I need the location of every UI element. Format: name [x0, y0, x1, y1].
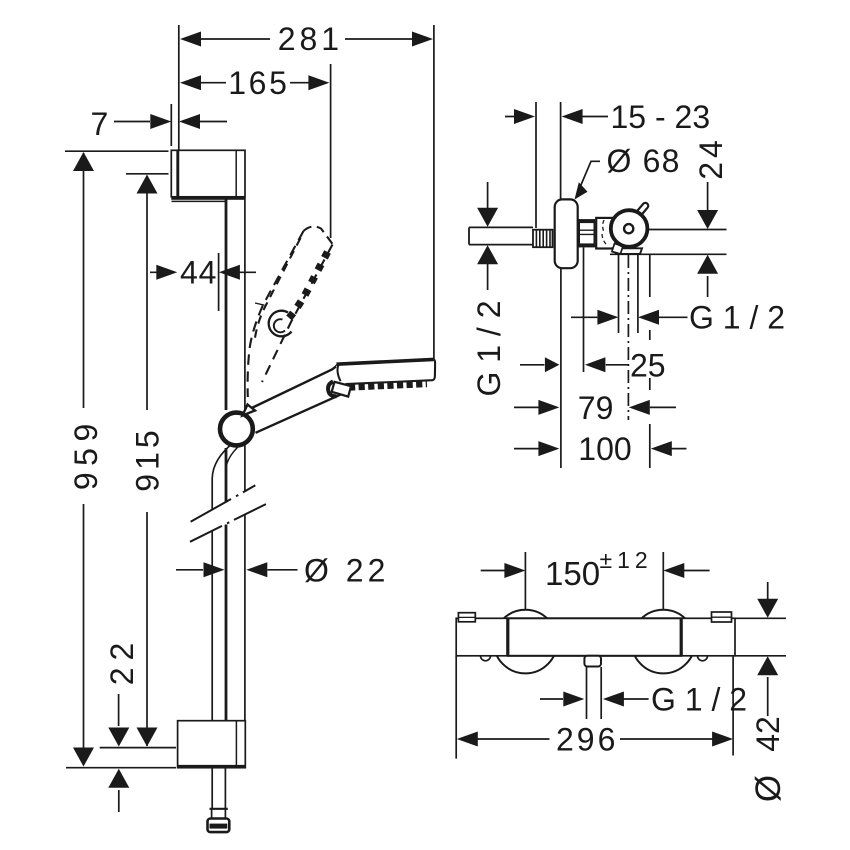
- node arrow 296 left: [457, 732, 478, 747]
- wire dim 165 line: [200, 82, 310, 84]
- node arrow 44 left: [156, 265, 177, 280]
- svg-text:296: 296: [556, 722, 618, 758]
- svg-text:959: 959: [68, 417, 104, 490]
- RIGHT TOP VIEW: wall outlet fitting: [469, 199, 727, 268]
- node arrow 24 up: [697, 255, 718, 274]
- node arrow G12top left: [597, 310, 618, 325]
- node arrow 165 left: [180, 75, 201, 90]
- wire centerline right: [648, 229, 727, 231]
- wire ext G12 bottom right: [600, 667, 602, 719]
- node arrow 24 down: [697, 210, 718, 229]
- node bottom outlet: [584, 656, 601, 667]
- node arrow 7 left: [150, 114, 171, 129]
- union nut hex: [579, 219, 594, 247]
- wire outlet axis dash-dot: [627, 255, 629, 420]
- node arrow 25 left: [545, 357, 560, 372]
- wire ext line rail end bottom: [100, 747, 176, 749]
- wire nut ext line below: [583, 248, 585, 373]
- node arrow 150 right: [663, 563, 684, 578]
- svg-text:±12: ±12: [600, 547, 653, 573]
- svg-text:Ø 68: Ø 68: [607, 143, 681, 179]
- node arrow 150 left: [504, 563, 525, 578]
- thermostat union nut circle right: [632, 610, 696, 674]
- wire ext 150 right: [662, 552, 664, 610]
- node arrow 281 left: [180, 32, 201, 47]
- wire ext 15-23 left: [535, 102, 537, 228]
- wire ext 296 left: [455, 656, 457, 759]
- node arrow 296 right: [712, 732, 733, 747]
- wire dim 15-23 stems: [505, 116, 608, 118]
- node holder foot: [613, 248, 642, 254]
- wire dim dia22 lines: [176, 569, 298, 571]
- ball joint with hose outlet: [611, 210, 648, 247]
- wire hose from pivot: [212, 443, 233, 809]
- thermostat central body: [508, 618, 681, 656]
- svg-text:42: 42: [750, 716, 786, 752]
- shower hose end connector nut: [208, 809, 230, 832]
- svg-text:281: 281: [278, 21, 343, 57]
- node arrow 15-23 left: [514, 109, 535, 124]
- node right wall tab: [712, 612, 732, 622]
- wire dim dia42 stems: [767, 582, 769, 716]
- svg-text:79: 79: [578, 390, 614, 426]
- wire dim 296 line: [477, 738, 713, 740]
- node screw bump right: [698, 656, 708, 661]
- wire dim 100 stems: [514, 448, 687, 450]
- node arrow 915 top: [137, 175, 158, 194]
- node rail break symbol: [189, 485, 266, 543]
- wire supply pipe: [469, 227, 533, 244]
- svg-text:22: 22: [104, 636, 140, 686]
- svg-text:100: 100: [578, 431, 631, 467]
- wire rail left edge: [225, 199, 228, 722]
- wire band edges right ext: [735, 618, 786, 656]
- wire ext line left main: [178, 25, 180, 150]
- node arrow 165 right: [308, 75, 329, 90]
- svg-text:165: 165: [228, 65, 290, 101]
- node arrow dia22 left: [204, 562, 225, 577]
- wire ext line bracket bottom: [66, 767, 176, 769]
- svg-text:G 1 / 2: G 1 / 2: [471, 300, 507, 396]
- wire dim 22 bottom stems: [118, 694, 120, 812]
- node arrow G12bottom left: [563, 692, 584, 707]
- node screw bump left: [481, 656, 491, 661]
- wire dim 79 stems: [514, 406, 676, 408]
- wire dim 915 line: [146, 176, 148, 746]
- slider holder hook C detail: [269, 311, 292, 337]
- wire wall ext line below: [560, 269, 562, 469]
- node arrow 22 up: [108, 769, 129, 788]
- svg-text:915: 915: [130, 426, 166, 491]
- wire ext 150 left: [524, 552, 526, 610]
- node arrow 915 bottom: [137, 728, 158, 747]
- node arrow 79 right: [629, 400, 650, 415]
- wall flange escutcheon dia 68: [555, 199, 578, 268]
- node arrow 22 down: [108, 728, 129, 747]
- bottom wall bracket of rail: [178, 721, 246, 768]
- node arrow dia42 up: [757, 656, 778, 675]
- DIMENSIONS RIGHT TOP: [488, 102, 708, 468]
- node arrow 15-23 right: [562, 109, 583, 124]
- wire dim G12 bottom stems: [540, 698, 649, 700]
- thermostat body band: [456, 618, 735, 656]
- wire ext line 44: [218, 253, 220, 311]
- svg-text:7: 7: [91, 106, 113, 142]
- node arrow dia22 right: [246, 562, 267, 577]
- thermostat union nut circle left: [494, 610, 558, 674]
- node arrow G12left up: [477, 245, 498, 264]
- wire dim 24 stem bottom: [707, 276, 709, 297]
- top wall bracket of rail: [171, 150, 245, 201]
- svg-text:150: 150: [545, 555, 600, 592]
- slider pivot ring on rail: [220, 413, 253, 446]
- wire ext line top 915: [126, 173, 169, 175]
- node arrow 25 right: [585, 357, 606, 372]
- wire outlet right line: [637, 255, 639, 334]
- DIMENSIONS LEFT VIEW: [65, 25, 434, 812]
- slider release nub: [243, 405, 256, 416]
- wire leader dia68: [579, 161, 600, 190]
- node arrow dia68 leader: [575, 182, 588, 199]
- wire outlet left line: [618, 255, 620, 334]
- wire ext line 281 right: [433, 25, 435, 359]
- wire dim 150 stems: [481, 570, 710, 572]
- svg-text:Ø 22: Ø 22: [304, 553, 389, 589]
- node arrow dia42 down: [757, 599, 778, 618]
- hand shower head with spray face: [336, 359, 435, 387]
- wire ext line top 959: [65, 150, 169, 152]
- wire ext G12 bottom left: [586, 667, 588, 719]
- arrows left view: [73, 32, 433, 788]
- node arrow 100 left: [538, 441, 559, 456]
- DIMENSIONS RIGHT BOTTOM: [456, 552, 768, 759]
- node left wall tab: [458, 613, 475, 622]
- svg-text:15 - 23: 15 - 23: [611, 99, 711, 135]
- wire ext line wall 7: [170, 104, 172, 146]
- node arrow 44 right: [219, 265, 240, 280]
- wire dim 959 line: [83, 153, 85, 765]
- wire dim 25 stems: [520, 364, 629, 366]
- svg-text:24: 24: [693, 136, 729, 180]
- wire rail right edge: [244, 197, 246, 722]
- wire dim 24 stem top: [707, 182, 709, 212]
- wire foot bottom line: [610, 253, 727, 255]
- node arrow G12top right: [638, 310, 659, 325]
- node arrow 959 top: [73, 152, 94, 171]
- node nub on ball: [638, 206, 645, 215]
- node arrow 281 right: [412, 32, 433, 47]
- node arrow 7 right: [179, 114, 200, 129]
- wire ext line 165 right: [330, 64, 332, 238]
- outlet holder body: [596, 218, 621, 249]
- wire dim 44 lines: [150, 271, 256, 273]
- svg-text:Ø: Ø: [749, 771, 788, 802]
- wire hose right edge at pivot: [226, 446, 239, 470]
- wire dim 7 lines: [114, 121, 227, 123]
- svg-text:44: 44: [180, 255, 217, 291]
- wire ext 296 right: [732, 656, 734, 756]
- holder hook under shower head: [328, 382, 351, 397]
- node arrow 959 bottom: [73, 748, 94, 767]
- hand shower parked position (dashed outline): [248, 227, 333, 398]
- wire dim G12 left stems: [487, 182, 489, 290]
- svg-text:G 1 / 2: G 1 / 2: [689, 300, 785, 336]
- svg-text:G 1 / 2: G 1 / 2: [651, 682, 747, 718]
- hand shower handle arm: [248, 364, 346, 433]
- node arrow 100 right: [651, 441, 672, 456]
- node arrow G12left down: [477, 208, 498, 227]
- wire 100 ref line right: [649, 255, 651, 469]
- wire ext 15-23 right: [560, 102, 562, 199]
- node arrow G12bottom right: [603, 692, 624, 707]
- RIGHT BOTTOM VIEW: thermostat mixer: [456, 610, 786, 674]
- wire dim 281 line: [200, 38, 414, 40]
- svg-text:25: 25: [630, 348, 666, 384]
- node arrow 79 left: [538, 400, 559, 415]
- wire dim G12top stems: [571, 316, 688, 318]
- supply pipe thread G1/2: [533, 230, 553, 248]
- labels left view: [68, 21, 389, 685]
